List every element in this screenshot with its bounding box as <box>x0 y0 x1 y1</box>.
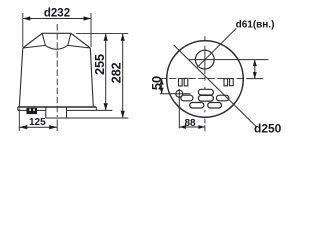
d232 left extension line <box>22 13 24 47</box>
terminal block <box>27 108 38 114</box>
horizontal dashed centerline <box>160 78 249 80</box>
vent slot center mid <box>198 95 213 101</box>
svg-text:88: 88 <box>184 118 196 129</box>
d250 diameter leader line <box>174 45 257 127</box>
bottom block <box>46 107 67 118</box>
base left side <box>17 107 19 110</box>
cap inner cylinder right edge <box>68 33 71 45</box>
vertical centerline dashes <box>204 36 206 131</box>
base bottom left segment <box>18 109 46 111</box>
cap bowl left line <box>23 45 46 48</box>
50 arrows <box>160 79 164 85</box>
base top line <box>18 106 97 108</box>
vent slot mid right <box>216 95 229 101</box>
dimension texts <box>29 7 282 135</box>
svg-text:50: 50 <box>149 76 164 90</box>
svg-text:125: 125 <box>29 117 46 128</box>
282 dimension line <box>122 34 124 118</box>
body right edge <box>90 48 93 107</box>
cone cap outline <box>23 33 91 48</box>
125 arrows <box>19 125 27 129</box>
right slot pair <box>224 79 228 86</box>
left slot pair <box>179 79 183 87</box>
small circle d61 <box>195 50 214 69</box>
d61 leader line <box>197 28 236 67</box>
right small dimension bottom tick <box>247 78 263 80</box>
left view centerline <box>56 24 58 117</box>
svg-text:d232: d232 <box>44 7 70 19</box>
cap bowl right line <box>68 45 91 48</box>
base right side <box>95 107 97 110</box>
right small dimension line <box>254 60 256 79</box>
125 right extension line <box>56 120 58 132</box>
88 dimension line <box>179 126 205 128</box>
125 left extension line <box>18 109 20 132</box>
d232 dimension line <box>23 18 91 20</box>
hole vertical line / 88 extension <box>178 89 180 128</box>
vent slot bottom right <box>208 103 222 109</box>
d232 arrows <box>23 16 31 20</box>
cap inner cylinder bottom arc <box>45 45 68 49</box>
body left edge <box>19 48 23 107</box>
small circle horizontal line / right extension <box>189 59 269 61</box>
255 arrows <box>104 34 108 41</box>
vent slot mid left <box>181 95 193 101</box>
d232 right extension line <box>90 13 92 47</box>
50 dimension line <box>161 79 163 94</box>
vent slot bottom left <box>190 103 204 109</box>
svg-text:d250: d250 <box>254 121 281 135</box>
88 arrows <box>179 125 186 129</box>
hole horizontal line <box>160 93 191 95</box>
top extension line <box>76 32 128 34</box>
big circle d250 <box>167 41 244 118</box>
svg-text:255: 255 <box>93 54 107 75</box>
vent slot center top <box>198 89 213 95</box>
block bottom + 282 extension <box>46 117 129 119</box>
cap inner cylinder left edge <box>42 33 45 45</box>
282 arrows <box>121 34 125 41</box>
255 dimension line <box>105 34 107 111</box>
mounting hole <box>176 90 183 97</box>
svg-text:282: 282 <box>109 62 123 83</box>
svg-text:d61(вн.): d61(вн.) <box>236 20 275 31</box>
base bottom right segment + 255 extension <box>67 109 113 111</box>
right small dim arrows <box>253 60 257 67</box>
125 dimension line <box>19 126 57 128</box>
